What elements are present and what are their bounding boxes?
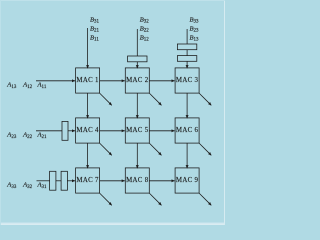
delay register column3 upper (177, 44, 196, 50)
delay register column3 lower (177, 56, 196, 62)
svg-text:MAC 3: MAC 3 (176, 77, 199, 84)
page edge highlight left (0, 0, 1, 225)
output diagonal MAC7 (100, 193, 112, 205)
wire row2 delay to MAC4 (68, 130, 75, 132)
output diagonal MAC8 (149, 193, 161, 205)
wire B column3 vertical into delay (186, 29, 188, 44)
output diagonal MAC1 (100, 93, 112, 105)
page edge highlight right (224, 0, 225, 225)
wire A row2 into delay (36, 130, 62, 132)
svg-text:MAC 7: MAC 7 (76, 177, 99, 184)
wire MAC2 to MAC3 (149, 80, 174, 82)
wire row3 between delays (56, 180, 61, 182)
wire MAC3 to MAC6 (186, 93, 188, 118)
wire MAC4 to MAC5 (100, 130, 125, 132)
MAC 5 box (125, 118, 149, 143)
MAC 3 box (175, 68, 199, 93)
MAC 1 box (76, 68, 100, 93)
svg-text:MAC 8: MAC 8 (126, 177, 149, 184)
svg-text:MAC 2: MAC 2 (126, 77, 149, 84)
wire MAC5 to MAC6 (149, 130, 174, 132)
output diagonal MAC5 (149, 143, 161, 155)
wire row3 delay to MAC7 (67, 180, 75, 182)
MAC 2 box (125, 68, 149, 93)
MAC 9 box (175, 168, 199, 193)
output diagonal MAC3 (199, 93, 211, 105)
output diagonal MAC9 (199, 193, 211, 205)
wire MAC1 to MAC2 (100, 80, 125, 82)
delay register row3 right (61, 171, 67, 190)
MAC 6 box (175, 118, 199, 143)
svg-text:MAC 5: MAC 5 (126, 127, 149, 134)
delay register row2 (62, 121, 68, 140)
wire MAC4 to MAC7 (87, 143, 89, 168)
wire A row1 into MAC1 (36, 80, 75, 82)
wire MAC6 to MAC9 (186, 143, 188, 168)
svg-text:MAC 1: MAC 1 (76, 77, 99, 84)
page edge highlight bottom (0, 221, 225, 224)
wire MAC1 to MAC4 (87, 93, 89, 118)
wire A row3 into delay (37, 180, 50, 182)
wire B column2 vertical into delay (136, 29, 138, 56)
svg-text:MAC 4: MAC 4 (76, 127, 99, 134)
wire MAC2 to MAC5 (136, 93, 138, 118)
svg-text:MAC 6: MAC 6 (176, 127, 199, 134)
svg-text:MAC 9: MAC 9 (176, 177, 199, 184)
output diagonal MAC2 (149, 93, 161, 105)
output diagonal MAC6 (199, 143, 211, 155)
MAC 4 box (76, 118, 100, 143)
wire MAC7 to MAC8 (100, 180, 125, 182)
MAC 7 box (76, 168, 100, 193)
page edge highlight top (0, 0, 225, 1)
wire column3 between delays (186, 50, 188, 56)
delay register column2 (128, 56, 147, 62)
output diagonal MAC4 (100, 143, 112, 155)
MAC 8 box (125, 168, 149, 193)
wire B column1 vertical into MAC1 (87, 28, 89, 68)
wire column2 delay to MAC2 (136, 62, 138, 69)
wire MAC8 to MAC9 (149, 180, 174, 182)
delay register row3 left (50, 171, 56, 190)
wire column3 delay to MAC3 (186, 61, 188, 68)
wire MAC5 to MAC8 (136, 143, 138, 168)
